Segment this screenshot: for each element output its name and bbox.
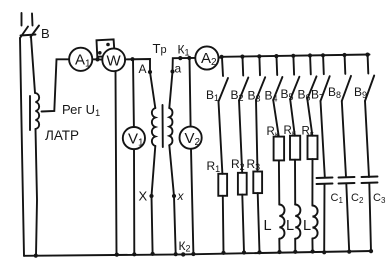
switch B1 bus dot — [220, 55, 224, 59]
resistor R1 — [218, 174, 227, 196]
switch B8 blade — [342, 76, 351, 101]
ammeter A1 — [69, 48, 92, 71]
wattmeter box dot 2 — [98, 51, 102, 55]
junction C2 at bus — [347, 250, 351, 254]
wire primary coil bottom to bus through X — [152, 146, 156, 254]
inductor L2 — [295, 205, 300, 239]
wire B9 to C3 — [365, 101, 369, 177]
terminal X dot — [149, 194, 153, 198]
wire C3 to bus — [369, 183, 371, 251]
capacitor C1 top plate — [317, 177, 333, 180]
wire L3 to bus — [311, 239, 313, 252]
switch B1 blade — [219, 78, 229, 102]
wire secondary coil bottom to bus through x — [169, 145, 175, 254]
switch B8 bus dot — [342, 53, 346, 57]
switch B5 blade — [290, 77, 299, 100]
switch B4 bus dot — [274, 54, 278, 58]
capacitor C2 bottom plate — [339, 182, 355, 185]
switch B7 stub — [322, 56, 325, 74]
junction R1 at bus — [221, 251, 225, 255]
top bus wire — [219, 55, 370, 59]
wire A1 to W — [92, 58, 102, 60]
junction L2 at bus — [293, 250, 297, 254]
switch B9 stub — [367, 55, 370, 73]
wattmeter terminal box — [97, 39, 115, 56]
inductor L3 — [312, 206, 317, 239]
wire R1 to bus — [222, 196, 225, 253]
supply terminal tick 1 — [21, 13, 23, 26]
wire B3 to R3 — [256, 100, 258, 172]
resistor R3 — [253, 172, 262, 194]
transformer core — [162, 105, 164, 147]
wire B4 to Rk1 — [273, 100, 279, 137]
wire Rk1 to L1 — [278, 160, 280, 204]
svg-text:В: В — [41, 26, 50, 41]
wire Rk3 to L3 — [311, 159, 313, 205]
wire C1 to bus — [323, 184, 325, 252]
wire B8 to C2 — [342, 101, 346, 177]
terminal A dot — [148, 70, 152, 74]
svg-text:A: A — [139, 62, 147, 76]
switch B3 stub — [258, 57, 261, 75]
wire C2 to bus — [346, 184, 349, 252]
switch B7 bus dot — [321, 53, 325, 57]
junction V2 at bus — [191, 252, 195, 256]
svg-text:Тр: Тр — [153, 41, 167, 56]
svg-text:L: L — [264, 218, 272, 234]
capacitor C2 top plate — [339, 176, 355, 179]
wire V2 to bus — [191, 149, 193, 254]
svg-text:a: a — [175, 62, 182, 76]
resistor Rk2 — [290, 136, 300, 160]
svg-text:ЛАТР: ЛАТР — [45, 128, 79, 143]
ammeter A2 — [195, 46, 218, 69]
svg-text:R1: R1 — [207, 159, 221, 174]
wire L2 to bus — [294, 239, 296, 252]
inductor L1 — [279, 205, 284, 239]
svg-text:В2: В2 — [231, 88, 244, 103]
switch B3 blade — [256, 77, 265, 100]
svg-text:С3: С3 — [373, 192, 386, 205]
switch B4 blade — [273, 77, 282, 100]
svg-text:x: x — [177, 189, 185, 203]
svg-text:В1: В1 — [206, 88, 219, 103]
wire V1 to bus — [133, 149, 135, 254]
transformer Tp secondary winding — [169, 108, 172, 145]
wire V2 riser — [190, 58, 191, 127]
switch B4 stub — [276, 57, 279, 75]
switch B6 stub — [309, 56, 312, 74]
wire terminal a up to K1 node — [173, 58, 196, 72]
wire L1 to bus — [278, 239, 280, 252]
junction X-branch at bus — [151, 252, 155, 256]
capacitor C1 bottom plate — [317, 183, 333, 186]
LATR autotransformer coil — [36, 93, 40, 129]
wire B5 to Rk2 — [290, 100, 295, 136]
junction C3 at bus — [369, 249, 373, 253]
junction dot V2 tap — [187, 56, 191, 60]
svg-text:Рег U1: Рег U1 — [62, 102, 100, 118]
svg-text:К1: К1 — [178, 43, 190, 58]
wire B2 to R2 — [239, 101, 242, 173]
LATR core bar — [29, 96, 31, 130]
switch B6 bus dot — [308, 53, 312, 57]
wire R3 to bus — [258, 193, 260, 252]
resistor Rk1 — [274, 137, 285, 161]
resistor R2 — [238, 173, 247, 195]
voltmeter V1 — [123, 127, 145, 149]
supply terminal tick 2 — [31, 14, 34, 26]
terminal x dot — [172, 194, 176, 198]
junction C1 at bus — [322, 250, 326, 254]
wire: LATR tap to A1 — [42, 59, 70, 111]
switch B6 blade — [307, 76, 316, 99]
switch B1 stub — [222, 58, 223, 77]
svg-text:X: X — [139, 189, 148, 204]
wire terminal a to secondary coil — [169, 72, 172, 109]
switch B blade 2 — [31, 26, 40, 38]
switch B2 bus dot — [240, 55, 244, 59]
switch B2 blade — [239, 78, 248, 101]
svg-text:К2: К2 — [179, 239, 191, 254]
wire terminal A to primary coil — [150, 72, 155, 108]
svg-text:В6: В6 — [298, 88, 311, 103]
wire R2 to bus — [242, 195, 244, 253]
svg-text:В8: В8 — [328, 85, 341, 100]
junction V1 at bus — [132, 252, 136, 256]
terminal K1 dot — [178, 56, 182, 60]
wattmeter W — [102, 48, 125, 71]
svg-text:W: W — [107, 53, 122, 70]
switch B7 blade — [321, 76, 330, 101]
wire: right supply pole to LATR top — [31, 37, 35, 93]
switch B5 bus dot — [291, 54, 295, 58]
resistor Rk3 — [308, 136, 318, 159]
switch B8 stub — [344, 56, 347, 74]
svg-text:В9: В9 — [354, 85, 367, 100]
wire B1 to R1 — [219, 102, 223, 174]
svg-text:L: L — [303, 218, 311, 234]
junction R2 at bus — [242, 250, 246, 254]
switch B9 blade — [365, 76, 374, 102]
switch B9 bus dot — [365, 53, 369, 57]
transformer Tp primary winding — [152, 108, 155, 146]
wire B7 to C1 — [321, 101, 325, 177]
svg-text:С2: С2 — [351, 192, 364, 205]
wire W bottom to bus — [116, 71, 117, 254]
wire W to transformer primary terminal A — [125, 59, 150, 72]
terminal a dot — [170, 69, 174, 73]
wire V1 riser — [132, 59, 135, 127]
switch B2 stub — [242, 57, 245, 75]
junction L1 at bus — [277, 250, 281, 254]
junction x-branch at bus — [174, 252, 178, 256]
capacitor C3 top plate — [362, 176, 378, 179]
wire B6 to Rk3 — [307, 99, 312, 136]
junction dot V1 tap — [130, 57, 134, 61]
voltmeter V2 — [180, 127, 202, 149]
svg-text:В7: В7 — [311, 88, 324, 103]
junction R3 at bus — [257, 250, 261, 254]
wattmeter box dot 1 — [106, 43, 110, 47]
switch B5 stub — [292, 56, 295, 74]
wire: LATR bottom to bottom bus — [36, 129, 38, 256]
svg-text:В3: В3 — [248, 89, 261, 104]
svg-text:В5: В5 — [281, 87, 294, 102]
junction LATR at bus — [34, 254, 38, 258]
switch B3 bus dot — [257, 54, 261, 58]
svg-text:С1: С1 — [331, 192, 344, 205]
junction dot between A1 and W — [95, 57, 99, 61]
wire: left supply pole down to bottom bus — [20, 38, 24, 256]
switch B tie bar — [21, 35, 36, 36]
junction L3 at bus — [311, 249, 315, 253]
junction W-branch at bus — [115, 253, 119, 257]
terminal K2 dot — [181, 252, 185, 256]
svg-text:L: L — [286, 218, 294, 234]
capacitor C3 bottom plate — [362, 182, 378, 185]
svg-text:В4: В4 — [265, 89, 278, 104]
wire Rk2 to L2 — [294, 160, 296, 205]
svg-text:R2: R2 — [231, 157, 245, 172]
bottom bus wire — [24, 251, 372, 256]
switch B blade 1 — [20, 27, 28, 39]
